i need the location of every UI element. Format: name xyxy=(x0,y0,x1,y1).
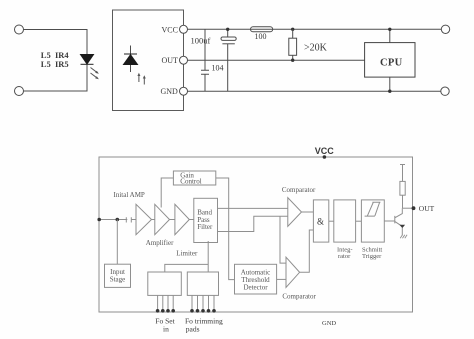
CPU box U2 xyxy=(365,43,415,78)
transistor Q1 xyxy=(395,208,403,225)
capacitor C1 100uf electrolytic xyxy=(227,29,229,91)
amplifier triangle A3 xyxy=(175,204,189,234)
GND rail wire xyxy=(188,90,441,92)
svg-text:VCC: VCC xyxy=(162,25,178,34)
wire A2-A3 xyxy=(170,219,175,221)
svg-text:Comparator: Comparator xyxy=(282,293,316,301)
wire top-left loop xyxy=(24,30,88,92)
Band Pass Filter box xyxy=(194,198,218,242)
Schmitt trigger box xyxy=(361,200,384,242)
photodiode D2 xyxy=(130,46,132,73)
trimming pad block 1 xyxy=(148,272,182,295)
junction dot C1/VCC xyxy=(226,28,229,31)
AND gate box xyxy=(313,200,328,242)
IC outer box xyxy=(99,157,413,312)
wire gain control to ATD xyxy=(216,178,235,280)
svg-text:Control: Control xyxy=(180,178,201,186)
trimming pad block 2 xyxy=(187,272,218,295)
input wire xyxy=(99,219,127,221)
amplifier triangle A2 xyxy=(155,204,170,234)
junction dot VCC/R2 xyxy=(291,28,294,31)
svg-text:Stage: Stage xyxy=(110,276,126,284)
Gain Control box xyxy=(173,171,215,185)
wire BPF out1 to comparator1 xyxy=(218,207,288,209)
svg-text:OUT: OUT xyxy=(419,204,435,213)
capacitor C2 104 xyxy=(201,29,209,91)
svg-text:CPU: CPU xyxy=(380,57,403,68)
OUT rail wire xyxy=(188,59,365,61)
wire AND to integrator xyxy=(329,220,334,222)
pad dots block 2 xyxy=(190,309,194,313)
svg-text:Amplifier: Amplifier xyxy=(146,239,174,247)
svg-text:&: & xyxy=(317,217,324,227)
pad legs 2 xyxy=(192,295,214,309)
OUT junction dot xyxy=(412,206,416,210)
resistor R1 100 xyxy=(251,27,273,32)
resistor R3 xyxy=(400,165,405,209)
junction dot CPU/GND xyxy=(388,90,391,93)
wire collector / OUT xyxy=(403,207,414,209)
svg-text:Filter: Filter xyxy=(197,223,213,231)
wire A1-A2 xyxy=(152,219,155,221)
svg-text:OUT: OUT xyxy=(162,56,179,65)
coupling capacitor xyxy=(126,217,136,222)
ground symbol xyxy=(400,235,407,239)
junction dot CPU/VCC xyxy=(388,28,391,31)
pin circle VCC xyxy=(180,25,188,33)
wire CMP2 out xyxy=(300,230,314,272)
svg-text:Comparator: Comparator xyxy=(282,186,316,194)
svg-text:GND: GND xyxy=(161,87,179,96)
Integrator box xyxy=(334,200,356,242)
svg-text:104: 104 xyxy=(212,64,224,73)
wire CPU to GND xyxy=(389,77,391,91)
pin circle GND xyxy=(180,87,188,95)
svg-text:pads: pads xyxy=(186,325,200,334)
wire CMP1 out xyxy=(302,211,314,213)
junction dot R2/OUT xyxy=(291,59,294,62)
svg-text:100: 100 xyxy=(255,32,267,41)
svg-text:Limiter: Limiter xyxy=(176,249,198,257)
module box U1 xyxy=(113,10,184,111)
terminal T3 top-right xyxy=(441,25,449,33)
wire BPF out2 step xyxy=(218,216,288,231)
wire ATD out xyxy=(277,278,286,280)
input junction dot A xyxy=(97,218,101,222)
wire integrator to schmitt xyxy=(356,220,362,222)
pin circle OUT xyxy=(180,56,188,64)
wire A3-BPF xyxy=(189,219,194,221)
pad legs 1 xyxy=(158,295,174,309)
resistor R2 >20K xyxy=(292,29,294,60)
schmitt hysteresis symbol xyxy=(365,202,381,216)
comparator CMP2 xyxy=(286,257,300,287)
VCC junction dot xyxy=(323,155,327,159)
svg-text:Trigger: Trigger xyxy=(362,253,382,260)
wire schmitt to base xyxy=(384,220,395,222)
wire branch to comparator2 xyxy=(280,216,286,263)
wire emitter to ground xyxy=(401,228,403,235)
wire to input stage xyxy=(116,220,118,265)
LED D1 xyxy=(81,55,94,65)
wire BPF to trimming pads xyxy=(165,241,208,272)
amplifier triangle A1 xyxy=(136,204,152,234)
wire CPU to VCC xyxy=(389,29,391,42)
terminal T2 bottom-left xyxy=(15,87,24,96)
terminal T1 top-left xyxy=(15,25,24,34)
svg-text:in: in xyxy=(163,325,169,334)
photodiode light arrows xyxy=(139,76,144,85)
svg-text:GND: GND xyxy=(322,320,336,327)
svg-text:>20K: >20K xyxy=(304,43,328,54)
svg-text:Inital AMP: Inital AMP xyxy=(114,191,145,199)
wire gain control to amplifier xyxy=(161,178,173,208)
svg-text:VCC: VCC xyxy=(315,146,335,156)
svg-text:100uf: 100uf xyxy=(191,36,211,46)
svg-text:Detector: Detector xyxy=(243,283,268,291)
comparator CMP1 xyxy=(288,198,302,227)
pad dots block 1 xyxy=(156,309,160,313)
terminal T4 bottom-right xyxy=(441,87,449,95)
svg-text:rator: rator xyxy=(338,253,351,260)
LED emission arrows xyxy=(91,68,98,79)
Automatic Threshold Detector box xyxy=(235,264,277,294)
svg-text:L5 IR5: L5 IR5 xyxy=(41,59,69,69)
VCC rail wire xyxy=(188,28,442,30)
input junction dot B xyxy=(116,218,120,222)
Input Stage box xyxy=(105,264,131,287)
